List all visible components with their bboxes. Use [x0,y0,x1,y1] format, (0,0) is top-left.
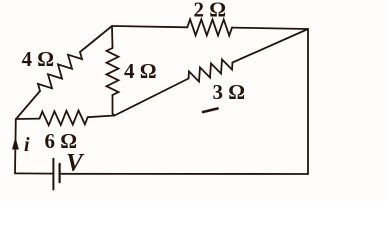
current arrow i (pointing up) [12,137,19,150]
wire left vertical (bottom-left corner up to node A) [14,119,17,173]
svg-text:2 Ω: 2 Ω [194,0,227,22]
svg-text:i: i [24,134,30,156]
resistor 2Ω (top) [187,19,232,35]
wire right vertical (node D to bottom-right corner) [307,29,309,174]
svg-text:4 Ω: 4 Ω [22,47,55,71]
wire 3Ω lower lead (node C to 3Ω resistor) [115,79,189,116]
wire vertical upper lead (node B down to 4Ω vertical) [111,26,114,48]
svg-text:4 Ω: 4 Ω [124,59,157,83]
battery V: short plate [58,164,60,182]
svg-text:6 Ω: 6 Ω [45,129,78,153]
wire vertical lower lead (4Ω vertical to node C) [113,95,115,116]
wire top-right segment (2Ω resistor to node D) [232,28,308,29]
svg-text:3 Ω: 3 Ω [213,80,246,104]
wire horizontal lead (node A to 6Ω resistor) [16,118,40,120]
svg-text:V: V [66,150,85,177]
dash mark below 3Ω label [203,109,218,113]
wire horizontal lead (6Ω resistor to node C) [88,116,115,118]
resistor 3Ω (diagonal, right) [189,59,233,81]
resistor 6Ω (bottom-left horizontal) [40,111,88,126]
wire 3Ω upper lead (3Ω resistor to node D) [233,29,309,63]
wire top-left segment (node B to 2Ω resistor) [112,26,187,27]
wire bottom segment left (battery to bottom-left corner) [15,172,52,174]
wire diagonal lower lead (node A to 4Ω diagonal) [16,91,40,119]
wire bottom segment right (corner to battery) [61,173,308,175]
battery V: long plate [52,159,54,190]
wire diagonal upper lead (4Ω diagonal to node B) [80,26,112,52]
resistor 4Ω (vertical, middle) [107,48,119,95]
resistor 4Ω (diagonal, left) [38,52,82,91]
